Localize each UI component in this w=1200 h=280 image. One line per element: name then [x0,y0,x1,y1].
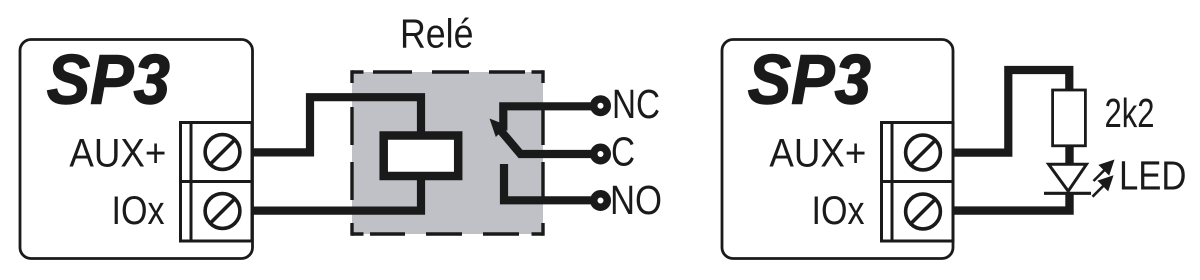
svg-text:AUX+: AUX+ [69,131,166,175]
wire IOx to coil (left) [252,177,421,211]
LED D1 triangle [1049,164,1087,191]
screw terminal IOx (left) [205,194,240,229]
wire resistor to LED [1065,145,1073,164]
svg-text:SP3: SP3 [47,41,170,119]
wire NO contact [504,164,600,200]
node NC [594,99,608,113]
resistor R1 2k2 [1053,90,1086,146]
svg-text:NO: NO [610,177,662,223]
svg-text:IOx: IOx [112,189,165,233]
SP3 device box U2 [722,40,953,259]
svg-text:SP3: SP3 [748,41,871,119]
svg-text:LED: LED [1119,153,1187,199]
wire NC contact [503,106,600,130]
svg-text:IOx: IOx [812,189,865,233]
switch arm arrowhead [490,119,508,138]
LED cathode bar [1044,192,1091,195]
wire AUX+ to coil (left) [252,97,421,152]
wire IOx to LED (right) [953,192,1070,211]
svg-text:C: C [611,129,635,175]
LED emission arrow 1 [1094,162,1113,182]
screw terminal IOx (right) [906,194,941,229]
svg-text:Relé: Relé [400,11,474,57]
relay box dashed border [352,70,543,235]
svg-text:2k2: 2k2 [1105,90,1155,136]
terminal block (right device) [882,123,954,242]
LED emission arrow 2 [1093,177,1112,196]
screw terminal AUX+ (right) [906,135,941,170]
screw terminal AUX+ (left) [205,135,240,170]
terminal block (left device) [181,123,253,242]
relay dashed gray box [352,72,543,234]
svg-text:AUX+: AUX+ [769,131,866,175]
relay coil K1 [384,136,459,177]
wire C and switch arm [501,131,600,154]
node C [594,147,608,161]
svg-text:NC: NC [612,81,660,127]
wire AUX+ to resistor (right) [953,70,1069,153]
node NO [594,194,608,208]
SP3 device box U1 [20,40,253,259]
